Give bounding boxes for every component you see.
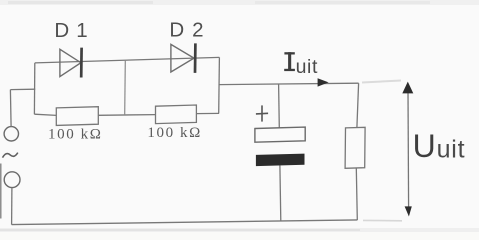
svg-text:D 1: D 1 (54, 19, 88, 42)
resistor R1 (56, 107, 98, 126)
wire capacitor top (278, 84, 281, 128)
svg-text:uit: uit (296, 56, 318, 78)
wire right vertical of ladder (218, 57, 221, 113)
wire lower-left stub to R1 (34, 114, 56, 115)
wire source bottom down (11, 188, 13, 225)
scan artifact bottom band (0, 228, 479, 232)
faint smudge to bottom arrow (363, 219, 402, 221)
wire bottom horizontal (12, 220, 358, 225)
arrow I_uit (318, 78, 329, 86)
svg-text:100 kΩ: 100 kΩ (48, 127, 103, 143)
diode D1 (60, 48, 82, 78)
svg-text:uit: uit (437, 136, 466, 164)
scan artifact left edge (0, 164, 2, 219)
measure arrow U_uit bottom head (405, 206, 412, 216)
plus sign (256, 105, 268, 121)
diode D2 (171, 43, 196, 73)
wire source top up (9, 90, 12, 127)
wire R2 to right vertical (196, 112, 219, 114)
wire load bottom vertical (356, 168, 357, 220)
resistor R2 (156, 105, 197, 124)
label I_uit (284, 52, 318, 78)
AC tilde (3, 153, 18, 158)
faint smudge to top arrow (362, 81, 401, 83)
scan artifact top band (0, 0, 479, 5)
label U_uit (413, 128, 466, 164)
wire R1 to R2 (98, 114, 155, 117)
svg-text:D 2: D 2 (169, 19, 204, 42)
wire source top horizontal (10, 88, 35, 90)
wire middle junction vertical (124, 60, 127, 115)
AC source terminal top (4, 127, 18, 141)
wire capacitor bottom (279, 166, 282, 222)
resistor load (345, 127, 365, 168)
wire top horizontal (35, 57, 220, 63)
capacitor C bottom plate (256, 154, 305, 167)
wire output horizontal (219, 83, 359, 84)
svg-text:U: U (413, 128, 436, 164)
capacitor C top plate (255, 127, 305, 142)
AC source terminal bottom (4, 172, 20, 188)
measure arrow U_uit top head (402, 82, 413, 94)
wire left vertical (33, 63, 35, 114)
measure arrow U_uit line (407, 90, 410, 208)
svg-text:100 kΩ: 100 kΩ (147, 125, 202, 141)
wire load top vertical (357, 83, 359, 127)
